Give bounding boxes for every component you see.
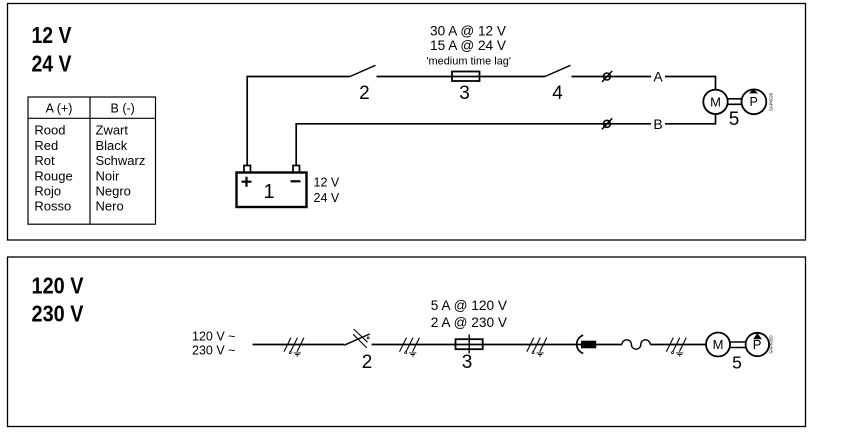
svg-text:3: 3 (462, 352, 473, 373)
wire battery - to node B (296, 124, 651, 166)
svg-text:P: P (750, 95, 758, 109)
svg-text:12 V: 12 V (32, 22, 73, 48)
wire supply to switch 2 (253, 344, 345, 346)
plug and socket connector (577, 335, 597, 353)
svg-text:Schwarz: Schwarz (96, 153, 146, 168)
svg-text:120 V: 120 V (32, 273, 85, 299)
svg-text:30 A @ 12 V: 30 A @ 12 V (430, 24, 506, 39)
label: system voltage 12 V / 24 V (32, 22, 73, 77)
svg-text:5: 5 (729, 109, 740, 130)
svg-text:Noir: Noir (96, 168, 121, 183)
label: fuse rating 30 A @ 12 V / 15 A @ 24 V 'medium time lag' (426, 24, 511, 68)
switch 2 (mains) (344, 329, 372, 373)
svg-text:A (+): A (+) (46, 101, 73, 115)
fuse 3 (452, 72, 480, 105)
svg-text:230 V ~: 230 V ~ (192, 344, 235, 358)
label: supply 120 V~ / 230 V~ (192, 329, 235, 357)
svg-text:M: M (713, 337, 724, 352)
svg-text:5: 5 (732, 353, 742, 373)
svg-text:Zwart: Zwart (96, 123, 129, 138)
svg-text:Red: Red (34, 138, 58, 153)
wire color table A(+)/B(-) (28, 97, 156, 224)
switch 4 (545, 65, 571, 104)
wire fuse 3 to switch 4 (480, 76, 546, 78)
fuse 3 (mains) (456, 335, 483, 374)
svg-text:Black: Black (96, 138, 128, 153)
svg-text:Rojo: Rojo (34, 184, 61, 199)
svg-text:P: P (753, 337, 762, 352)
wire switch 2 to fuse 3 (372, 344, 456, 346)
conductor marks, 3-wire with PE (set 1) (284, 338, 304, 356)
svg-text:5 A @ 120 V: 5 A @ 120 V (431, 298, 507, 313)
svg-text:2: 2 (362, 352, 373, 373)
conductor marks, 3-wire with PE (set 4) (666, 338, 686, 356)
battery 1 (237, 166, 307, 208)
svg-text:2: 2 (359, 83, 370, 104)
pump P (742, 89, 767, 114)
svg-text:SAPK020: SAPK020 (769, 92, 774, 111)
label: battery voltage 12 V / 24 V (314, 176, 340, 206)
shaft coupling (mains) (730, 342, 746, 348)
svg-text:12 V: 12 V (314, 176, 340, 190)
wire switch 4 to node A (572, 76, 652, 78)
svg-text:15 A @ 24 V: 15 A @ 24 V (430, 38, 506, 53)
conductor marks, 3-wire with PE (set 2) (400, 338, 420, 356)
svg-text:Rood: Rood (34, 123, 65, 138)
flexible cable (wavy) (622, 340, 650, 349)
svg-text:120 V ~: 120 V ~ (192, 329, 235, 343)
svg-text:Rosso: Rosso (34, 199, 71, 214)
svg-text:24 V: 24 V (32, 51, 73, 77)
conductor marks, 3-wire with PE (set 3) (527, 338, 547, 356)
svg-text:B: B (653, 116, 662, 132)
shaft coupling (728, 99, 742, 105)
connector on wire A (602, 71, 612, 82)
svg-text:230 V: 230 V (32, 300, 85, 326)
svg-text:SAPK020: SAPK020 (769, 335, 774, 354)
switch 2 (350, 65, 376, 104)
wire switch 2 to fuse 3 (377, 76, 453, 78)
wire flexible cable to motor (650, 344, 706, 346)
label: system voltage 120 V / 230 V (32, 273, 85, 327)
wire fuse 3 to flexible cable (483, 344, 622, 346)
wire battery + to switch 2 (247, 77, 350, 166)
connector on wire B (602, 118, 612, 129)
svg-text:B (-): B (-) (111, 101, 135, 115)
svg-text:3: 3 (459, 83, 470, 104)
motor M (mains unit 5) (706, 333, 730, 357)
wire node B to motor (665, 114, 716, 124)
svg-text:M: M (710, 95, 721, 110)
pump P (mains) (746, 333, 769, 356)
svg-text:'medium time lag': 'medium time lag' (426, 55, 511, 67)
wire node A to motor (665, 77, 716, 90)
svg-text:Rouge: Rouge (34, 168, 72, 183)
svg-text:Nero: Nero (96, 199, 124, 214)
svg-text:A: A (653, 69, 663, 85)
svg-text:2 A @ 230 V: 2 A @ 230 V (431, 315, 507, 330)
label: fuse rating 5 A @ 120 V / 2 A @ 230 V (431, 298, 507, 330)
svg-text:Negro: Negro (96, 184, 131, 199)
svg-text:4: 4 (552, 83, 563, 104)
svg-text:24 V: 24 V (314, 191, 340, 205)
svg-text:1: 1 (263, 181, 274, 203)
svg-text:Rot: Rot (34, 153, 55, 168)
motor M (unit 5) (703, 90, 727, 114)
